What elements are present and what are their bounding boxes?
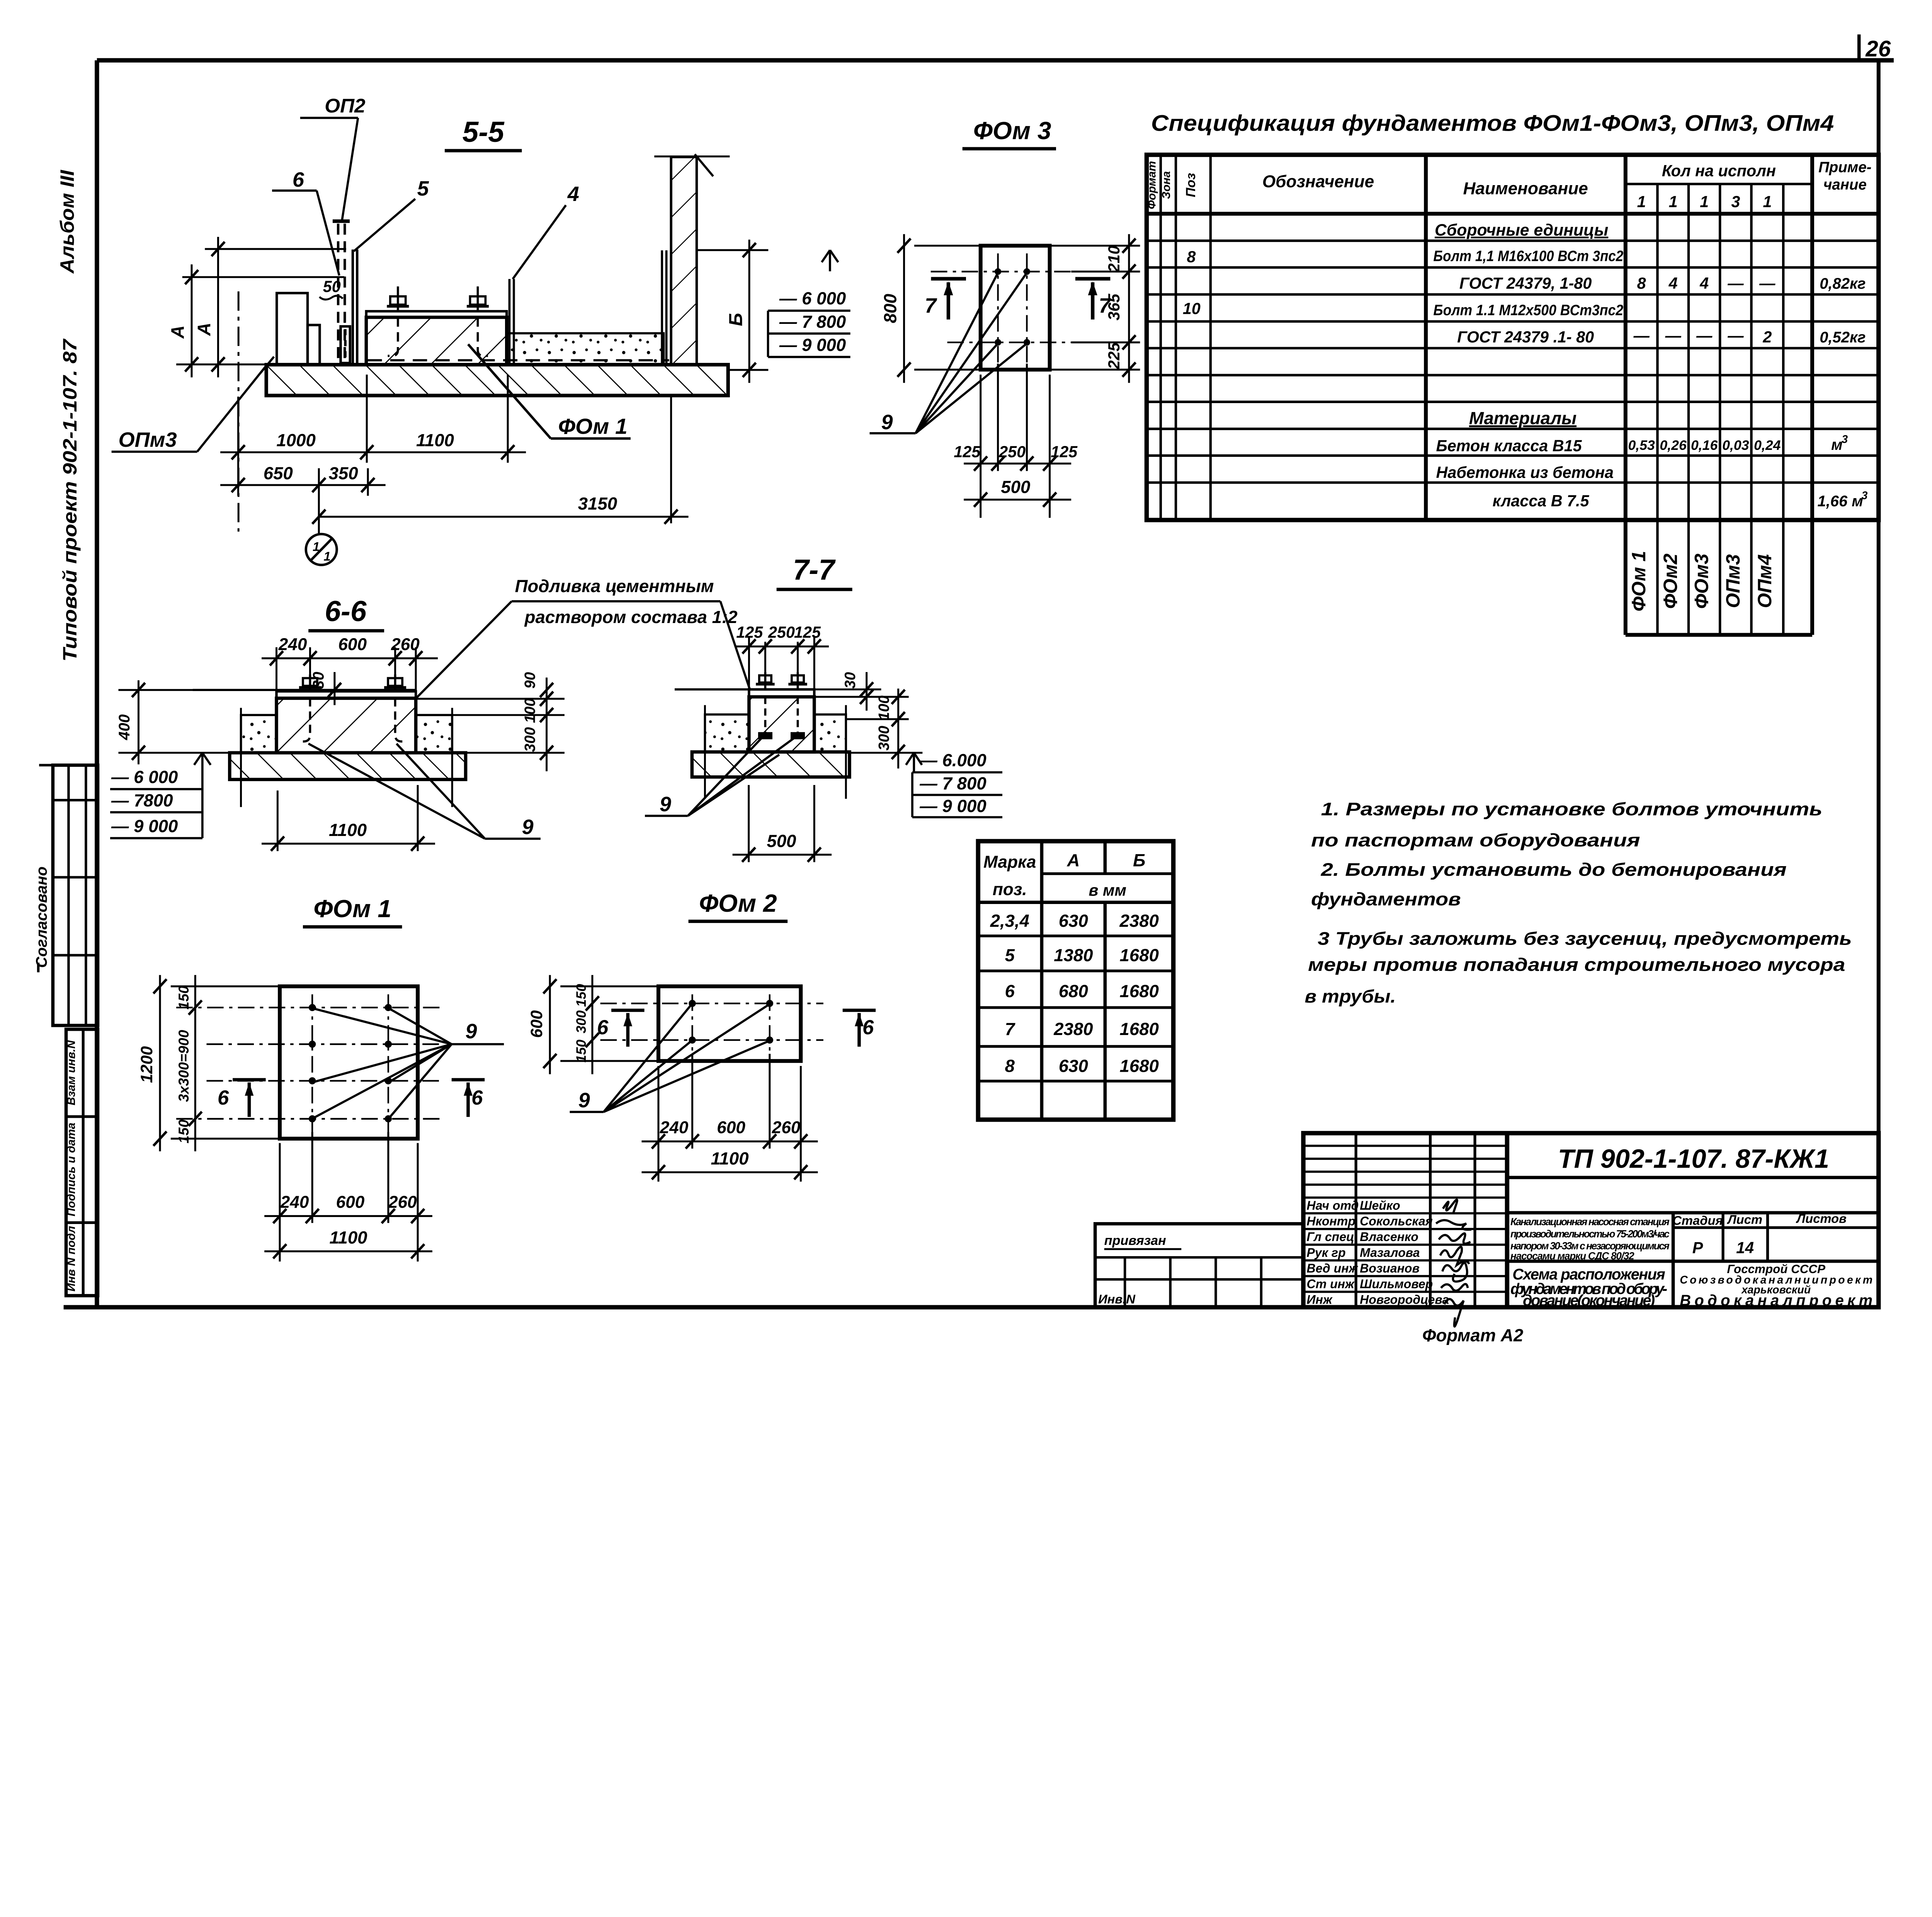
svg-text:9: 9 [881,410,893,434]
embedded pipe at wall [662,250,666,365]
people rows [1307,1199,1449,1307]
svg-text:Сокольская: Сокольская [1360,1214,1433,1228]
attachment box left [1095,1224,1303,1307]
bolts on plate [299,674,406,742]
dim 1100 bottom [262,785,435,851]
svg-text:1680: 1680 [1120,1019,1159,1039]
approval table Согласовано [38,765,98,1025]
bottom dims 125 250 125 [964,364,1071,518]
equipment outline ОПм3 [277,293,320,364]
svg-text:Болт 1,1 М16х100 ВСт 3пс2: Болт 1,1 М16х100 ВСт 3пс2 [1433,248,1623,265]
embedded pipe pos.4 [509,279,514,365]
svg-text:Инв.N: Инв.N [1098,1292,1136,1306]
foundation block ФОм1 in section [366,311,507,364]
svg-text:Формат А2: Формат А2 [1422,1326,1523,1345]
elevation levels right [912,772,1002,817]
elevation arrow left [194,753,211,838]
dims top 240 600 260 [262,647,438,691]
svg-text:30: 30 [310,672,327,689]
svg-text:Спецификация фундаментов ФОм1-: Спецификация фундаментов ФОм1-ФОм3, ОПм3… [1151,111,1834,136]
svg-text:240: 240 [278,635,307,654]
svg-text:—: — [1727,327,1744,344]
svg-text:3х300=900: 3х300=900 [175,1030,192,1102]
base plate [277,691,416,698]
dim 400 left with level mark [118,680,264,764]
svg-text:—: — [1727,274,1744,292]
svg-text:Водоканалпроект: Водоканалпроект [1680,1292,1872,1309]
svg-text:125: 125 [794,623,821,641]
dim 1100 [641,1165,818,1180]
bolts on plate [756,672,807,738]
svg-text:Возианов: Возианов [1360,1261,1420,1275]
foundation outline [981,246,1050,370]
bottom dims 240 600 260 [641,1054,818,1182]
svg-text:0,24: 0,24 [1754,438,1781,453]
svg-text:90: 90 [522,672,539,688]
dimension chain 650 350 [220,468,386,535]
svg-text:4: 4 [567,182,579,206]
dim 800 left [898,234,981,383]
dims inner 150 300 150 [586,975,599,1074]
wall on right [654,154,730,364]
svg-text:240: 240 [660,1118,689,1137]
svg-text:225: 225 [1105,342,1123,369]
svg-text:1100: 1100 [329,1228,367,1248]
svg-text:—: — [1696,327,1713,344]
foundation block [277,698,416,753]
svg-text:Инж: Инж [1307,1293,1333,1307]
svg-text:1680: 1680 [1120,945,1159,965]
svg-text:Кол на исполн: Кол на исполн [1662,162,1776,180]
svg-text:500: 500 [767,831,796,851]
section mark 6 left [233,1080,266,1117]
svg-text:Нконтр: Нконтр [1307,1214,1355,1228]
svg-text:— 7800: — 7800 [111,791,173,810]
svg-text:4: 4 [1699,274,1709,292]
svg-text:365: 365 [1105,293,1123,320]
inventory strip boxes [66,1029,98,1296]
svg-text:4: 4 [1668,274,1678,292]
svg-text:800: 800 [881,294,900,323]
svg-text:1: 1 [1700,193,1709,211]
svg-text:0,26: 0,26 [1660,438,1687,453]
elevation levels left [110,789,202,838]
svg-text:Наименование: Наименование [1463,179,1588,198]
svg-text:125: 125 [736,623,763,641]
bolt axes [931,254,1071,364]
dim 500 [964,492,1071,507]
dims inner 150 3x300=900 150 [189,975,202,1151]
svg-text:9: 9 [660,793,671,816]
svg-text:ТП 902-1-107. 87-КЖ1: ТП 902-1-107. 87-КЖ1 [1558,1144,1829,1174]
equipment base line [675,688,749,691]
section mark 6 right [843,1010,876,1047]
elevation arrow [822,250,838,271]
lean concrete right [814,715,846,752]
svg-text:250: 250 [768,623,795,641]
svg-text:ФОм 1: ФОм 1 [558,414,628,439]
svg-text:6: 6 [1005,981,1015,1001]
svg-text:0,16: 0,16 [1691,438,1718,453]
svg-text:поз.: поз. [993,880,1027,899]
svg-text:2380: 2380 [1053,1019,1093,1039]
dims right 210 365 225 [1050,234,1140,383]
svg-text:— 9 000: — 9 000 [779,335,846,355]
svg-text:Шильмовер: Шильмовер [1360,1277,1433,1291]
svg-text:ГОСТ 24379, 1-80: ГОСТ 24379, 1-80 [1459,274,1592,292]
svg-text:Поз: Поз [1184,173,1198,197]
svg-text:6: 6 [862,1016,874,1039]
svg-text:Сборочные единицы: Сборочные единицы [1435,221,1608,239]
section mark 7 left [931,279,966,319]
svg-text:630: 630 [1059,1056,1088,1076]
svg-text:8: 8 [1637,274,1646,292]
svg-text:привязан: привязан [1104,1233,1166,1248]
leader 9 [870,273,1027,433]
svg-text:260: 260 [772,1118,801,1137]
svg-text:0,53: 0,53 [1628,438,1655,453]
dimension А inner [205,237,346,377]
svg-text:Вед инж: Вед инж [1307,1261,1359,1275]
svg-text:Болт 1.1 М12х500 ВСт3пс2: Болт 1.1 М12х500 ВСт3пс2 [1433,302,1623,318]
svg-text:Лист: Лист [1727,1212,1762,1226]
svg-text:125: 125 [954,443,981,461]
svg-text:150: 150 [573,1040,589,1063]
svg-text:— 6 000: — 6 000 [779,288,846,308]
svg-text:Набетонка из бетона: Набетонка из бетона [1436,463,1614,481]
dimension А outer [176,264,344,377]
svg-text:1: 1 [1763,193,1772,211]
svg-text:3150: 3150 [578,494,617,513]
svg-text:500: 500 [1001,477,1030,497]
sheet title [1510,1266,1667,1309]
svg-text:6: 6 [218,1086,229,1109]
svg-text:Рук гр: Рук гр [1307,1246,1346,1260]
svg-text:630: 630 [1059,911,1088,931]
svg-text:Альбом III: Альбом III [56,170,78,274]
svg-text:Взам инв.N: Взам инв.N [65,1040,78,1105]
svg-text:300: 300 [876,725,892,751]
svg-text:ОПм3: ОПм3 [118,428,177,451]
svg-text:А: А [1066,850,1080,870]
svg-text:2,3,4: 2,3,4 [990,911,1029,931]
svg-text:1,66 м: 1,66 м [1818,493,1863,510]
svg-text:Новгородцева: Новгородцева [1360,1293,1449,1307]
dim 600 left [543,975,658,1074]
anchor bolt pos.9 left in block [387,286,409,356]
bolts 4 pcs [689,1000,773,1044]
svg-text:6: 6 [293,168,304,191]
leader 9 [308,744,541,839]
svg-text:класса В 7.5: класса В 7.5 [1493,492,1590,510]
svg-text:— 9 000: — 9 000 [919,796,986,816]
svg-text:по паспортам оборудования: по паспортам оборудования [1311,830,1640,850]
svg-text:Инв N подл: Инв N подл [65,1226,78,1292]
svg-text:5: 5 [417,177,429,200]
svg-text:ФОм2: ФОм2 [1660,553,1681,609]
svg-text:5: 5 [1005,945,1015,965]
concrete topping (набетонка) [367,333,669,364]
side extension verticals [241,708,452,807]
floor slab [692,752,850,777]
svg-text:1: 1 [1669,193,1678,211]
svg-text:ФОм3: ФОм3 [1691,553,1713,609]
svg-text:600: 600 [336,1193,365,1212]
foundation outline [658,986,801,1061]
svg-text:8: 8 [1005,1056,1015,1076]
svg-text:— 9 000: — 9 000 [111,816,178,836]
floor slab [230,753,466,780]
elevation arrow right [846,753,922,773]
svg-text:ОП2: ОП2 [325,95,365,117]
dimension 3150 [312,397,688,524]
svg-text:100: 100 [876,695,892,720]
bottom dims 240 600 260 [264,1132,432,1262]
leader 9 [314,1009,504,1118]
dims top 125 250 125 [735,636,829,690]
svg-text:1100: 1100 [416,431,454,450]
floor slab [260,357,728,395]
svg-text:400: 400 [116,714,133,741]
svg-text:А: А [167,325,188,339]
svg-text:Марка: Марка [983,853,1036,872]
svg-text:ФОм 3: ФОм 3 [973,117,1051,145]
organization [1680,1262,1872,1309]
svg-text:Подливка цементным: Подливка цементным [515,576,714,596]
svg-text:1100: 1100 [711,1149,749,1168]
equipment base line [193,688,416,691]
title block grid [1303,1133,1879,1307]
dimension Б [697,240,768,383]
svg-text:—: — [1759,274,1776,292]
svg-text:600: 600 [717,1118,745,1137]
section mark 6 left [611,1010,645,1047]
svg-text:6-6: 6-6 [325,595,367,627]
bolts [995,268,1030,346]
svg-text:1680: 1680 [1120,1056,1159,1076]
bolts 8 pcs [309,1004,392,1122]
svg-text:— 7 800: — 7 800 [919,773,986,793]
side extension verticals [705,705,846,798]
svg-text:0,52кг: 0,52кг [1820,329,1866,346]
svg-text:1. Размеры по установке бол: 1. Размеры по установке болтов уточнить [1321,798,1823,819]
svg-text:насосами марки СДС 80/32: насосами марки СДС 80/32 [1510,1250,1634,1262]
svg-text:фундаментов: фундаментов [1311,889,1461,909]
axis line [237,291,240,531]
table grid [1147,155,1879,635]
foundation block [749,697,814,752]
signatures [1436,1200,1471,1326]
svg-text:600: 600 [527,1010,546,1038]
svg-text:350: 350 [329,463,358,483]
dim 1200 left [153,975,280,1151]
svg-text:210: 210 [1105,245,1123,272]
svg-text:1200: 1200 [138,1046,156,1083]
lean concrete right [416,715,452,753]
svg-text:9: 9 [522,815,533,839]
svg-text:Мазалова: Мазалова [1360,1246,1420,1260]
mark/position table [978,841,1173,1119]
base plate [749,690,814,697]
svg-text:0,03: 0,03 [1722,438,1749,453]
svg-text:Материалы: Материалы [1469,408,1577,428]
axis bubble 1/1 [306,534,337,565]
svg-text:Б: Б [726,313,747,326]
svg-text:7-7: 7-7 [793,553,836,586]
svg-text:2. Болты установить до бето: 2. Болты установить до бетонирования [1320,859,1786,880]
svg-text:1000: 1000 [276,431,315,450]
svg-text:Листов: Листов [1796,1211,1847,1226]
svg-text:чание: чание [1823,176,1867,193]
bolt axes [600,994,823,1054]
elevation levels -6000 -7800 -9000 [768,311,850,357]
foundation outline [280,986,418,1139]
svg-text:260: 260 [388,1193,417,1212]
svg-text:250: 250 [998,443,1026,461]
svg-text:1: 1 [324,549,331,563]
svg-text:8: 8 [1187,248,1196,266]
svg-text:300: 300 [573,1010,589,1033]
svg-text:0,82кг: 0,82кг [1820,275,1866,292]
svg-text:6: 6 [597,1016,609,1039]
svg-text:Ст инж: Ст инж [1307,1277,1355,1291]
svg-text:ГОСТ 24379 .1- 80: ГОСТ 24379 .1- 80 [1457,328,1594,346]
svg-text:125: 125 [1051,443,1078,461]
svg-text:Подпись и дата: Подпись и дата [65,1123,78,1217]
bolt axes [176,994,440,1132]
svg-text:Формат: Формат [1145,161,1158,209]
svg-text:Бетон класса В15: Бетон класса В15 [1436,437,1582,455]
svg-text:ФОм 2: ФОм 2 [699,889,777,917]
svg-text:Р: Р [1692,1239,1703,1257]
svg-text:150: 150 [175,986,192,1010]
svg-text:2380: 2380 [1119,911,1159,931]
svg-text:Приме-: Приме- [1818,159,1871,175]
svg-text:Власенко: Власенко [1360,1230,1418,1244]
tall anchor bolt ОП2 [333,221,357,363]
svg-text:50: 50 [323,278,341,295]
dim 1100 [264,1244,432,1258]
svg-text:150: 150 [573,984,589,1007]
svg-text:1680: 1680 [1120,981,1159,1001]
svg-text:680: 680 [1059,981,1088,1001]
svg-text:260: 260 [391,635,420,654]
project description [1510,1216,1670,1262]
svg-text:Шейко: Шейко [1360,1199,1400,1212]
svg-text:Стадия: Стадия [1672,1213,1723,1227]
svg-text:14: 14 [1736,1239,1754,1257]
svg-text:7: 7 [1005,1019,1016,1039]
svg-text:5-5: 5-5 [463,116,505,148]
svg-text:240: 240 [280,1193,309,1212]
svg-text:ОПм4: ОПм4 [1754,554,1776,608]
svg-text:Обозначение: Обозначение [1262,172,1374,191]
svg-text:1380: 1380 [1054,945,1093,965]
svg-text:м: м [1831,436,1843,453]
lean concrete left [241,715,277,753]
svg-text:9: 9 [578,1089,590,1112]
dimension chain 1000 1100 [220,375,526,496]
svg-text:А: А [194,323,214,336]
leader 9 [645,737,796,816]
svg-text:3 Трубы заложить без заусе: 3 Трубы заложить без заусениц, предусмот… [1318,928,1852,948]
svg-text:1: 1 [313,539,320,553]
svg-text:30: 30 [842,672,859,688]
svg-text:300: 300 [522,727,539,752]
dim 500 bottom [733,785,832,862]
svg-text:100: 100 [522,698,539,723]
svg-text:6: 6 [471,1086,483,1109]
svg-text:Согласовано: Согласовано [33,867,50,968]
svg-text:3: 3 [1731,193,1740,211]
svg-text:—: — [1633,327,1650,344]
dims right 90 100 300 [416,678,565,771]
svg-text:3: 3 [1842,433,1848,446]
section mark 6 right [452,1080,485,1117]
svg-text:Канализационная насосная станц: Канализационная насосная станция [1510,1216,1670,1227]
dims right 30 100 300 [814,672,908,768]
svg-text:производительностью 75-200м3/ч: производительностью 75-200м3/час [1510,1228,1670,1239]
svg-text:Гл спец: Гл спец [1307,1230,1354,1244]
svg-text:— 6 000: — 6 000 [111,767,178,787]
svg-text:1: 1 [1637,193,1646,211]
svg-text:в мм: в мм [1089,882,1127,899]
svg-text:9: 9 [465,1020,477,1043]
svg-text:дование(окончание): дование(окончание) [1523,1292,1655,1309]
anchor bolt pos.9 right in block [467,286,489,356]
svg-text:раствором состава 1:2: раствором состава 1:2 [524,607,738,627]
svg-text:650: 650 [264,463,293,483]
svg-text:150: 150 [175,1119,192,1143]
lean concrete left [705,715,749,752]
svg-text:600: 600 [338,635,367,654]
svg-text:ФОм 1: ФОм 1 [313,895,391,923]
svg-text:— 7 800: — 7 800 [779,312,846,332]
svg-text:2: 2 [1762,328,1772,346]
svg-text:Зона: Зона [1160,171,1173,199]
svg-text:Типовой проект 902-1-107. 87: Типовой проект 902-1-107. 87 [59,338,81,661]
svg-text:ФОм 1: ФОм 1 [1628,551,1650,611]
svg-text:7: 7 [925,294,937,317]
svg-text:Б: Б [1133,850,1145,870]
svg-text:в трубы.: в трубы. [1305,986,1396,1006]
section mark 7 right [1075,279,1111,319]
svg-text:1100: 1100 [329,820,367,840]
leader 9 [570,1005,769,1112]
svg-text:— 6.000: — 6.000 [919,751,986,770]
svg-text:ОПм3: ОПм3 [1722,554,1744,608]
svg-text:меры против попадания строи: меры против попадания строительного мусо… [1308,954,1845,975]
svg-text:—: — [1665,327,1681,344]
svg-text:10: 10 [1183,300,1201,317]
svg-text:3: 3 [1862,489,1868,502]
svg-text:26: 26 [1865,36,1891,61]
svg-text:Нач отд: Нач отд [1307,1199,1359,1212]
